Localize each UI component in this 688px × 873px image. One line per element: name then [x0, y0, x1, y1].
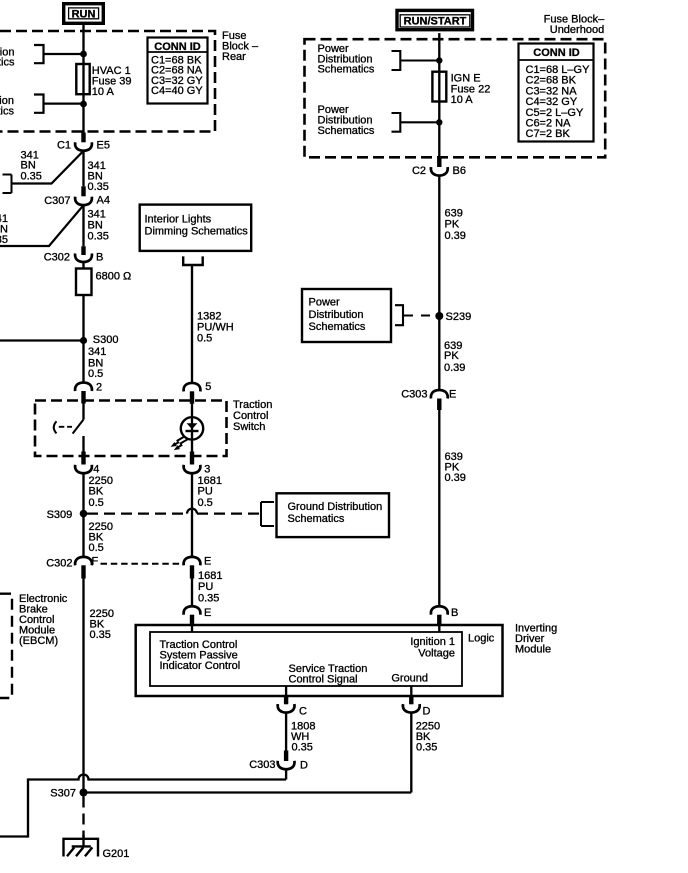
- svg-text:D: D: [300, 760, 308, 772]
- svg-text:0.5: 0.5: [88, 368, 103, 380]
- svg-text:Power: Power: [309, 297, 341, 309]
- svg-text:D: D: [423, 706, 431, 718]
- svg-text:Schematics: Schematics: [288, 513, 345, 525]
- svg-text:0.5: 0.5: [89, 542, 104, 554]
- svg-text:B: B: [96, 252, 103, 264]
- svg-text:Schematics: Schematics: [0, 57, 15, 69]
- svg-text:Rear: Rear: [222, 51, 246, 63]
- svg-text:C307: C307: [44, 195, 70, 207]
- svg-text:E: E: [449, 389, 456, 401]
- svg-text:5: 5: [205, 381, 211, 393]
- svg-text:S309: S309: [47, 509, 73, 521]
- svg-text:S307: S307: [50, 788, 76, 800]
- svg-text:Module: Module: [515, 644, 551, 656]
- svg-text:(EBCM): (EBCM): [19, 635, 58, 647]
- svg-text:CONN ID: CONN ID: [533, 47, 580, 59]
- svg-text:PU: PU: [198, 581, 213, 593]
- svg-text:0.5: 0.5: [197, 333, 212, 345]
- svg-text:C1: C1: [57, 140, 71, 152]
- svg-text:B: B: [451, 607, 458, 619]
- svg-text:PK: PK: [444, 350, 459, 362]
- svg-text:F: F: [92, 556, 99, 568]
- svg-text:BK: BK: [89, 486, 104, 498]
- svg-text:S239: S239: [446, 311, 472, 323]
- svg-text:0.35: 0.35: [198, 592, 219, 604]
- svg-text:3: 3: [204, 464, 210, 476]
- svg-text:0.5: 0.5: [89, 497, 104, 509]
- svg-text:Schematics: Schematics: [0, 106, 14, 118]
- svg-text:Ignition 1: Ignition 1: [410, 636, 455, 648]
- svg-text:Ground: Ground: [391, 673, 428, 685]
- svg-text:0.35: 0.35: [88, 181, 109, 193]
- svg-text:Schematics: Schematics: [318, 125, 375, 137]
- svg-text:C303: C303: [249, 759, 275, 771]
- svg-text:0.35: 0.35: [292, 742, 313, 754]
- svg-text:10 A: 10 A: [92, 86, 115, 98]
- svg-text:6800 Ω: 6800 Ω: [96, 271, 132, 283]
- svg-text:E5: E5: [97, 140, 110, 152]
- svg-text:Schematics: Schematics: [309, 321, 366, 333]
- svg-text:E: E: [204, 607, 211, 619]
- svg-text:Logic: Logic: [468, 633, 495, 645]
- svg-text:C2: C2: [412, 165, 426, 177]
- svg-text:Distribution: Distribution: [309, 309, 364, 321]
- svg-text:B6: B6: [453, 165, 466, 177]
- svg-text:0.39: 0.39: [444, 362, 465, 374]
- svg-text:C: C: [299, 706, 307, 718]
- svg-text:Interior Lights: Interior Lights: [145, 214, 212, 226]
- svg-text:0.35: 0.35: [88, 230, 109, 242]
- svg-text:Control Signal: Control Signal: [289, 673, 358, 685]
- svg-text:Voltage: Voltage: [418, 648, 455, 660]
- svg-text:C7=2 BK: C7=2 BK: [526, 128, 571, 140]
- svg-text:E: E: [204, 556, 211, 568]
- svg-text:Switch: Switch: [233, 421, 265, 433]
- svg-text:PU: PU: [198, 486, 213, 498]
- svg-text:0.5: 0.5: [198, 497, 213, 509]
- svg-text:0.39: 0.39: [445, 230, 466, 242]
- svg-text:Ground Distribution: Ground Distribution: [288, 501, 383, 513]
- svg-text:0.35: 0.35: [90, 629, 111, 641]
- svg-text:RUN: RUN: [72, 8, 96, 20]
- svg-text:Schematics: Schematics: [318, 64, 375, 76]
- svg-text:A4: A4: [97, 195, 110, 207]
- svg-text:10 A: 10 A: [451, 94, 474, 106]
- svg-text:C302: C302: [46, 558, 72, 570]
- svg-text:639: 639: [445, 207, 463, 219]
- svg-text:Indicator Control: Indicator Control: [160, 660, 241, 672]
- svg-text:4: 4: [93, 464, 99, 476]
- svg-text:CONN ID: CONN ID: [154, 41, 201, 53]
- svg-text:G201: G201: [103, 848, 130, 860]
- svg-text:0.35: 0.35: [416, 742, 437, 754]
- svg-text:0.35: 0.35: [0, 234, 8, 246]
- svg-text:PK: PK: [445, 219, 460, 231]
- svg-text:0.39: 0.39: [445, 472, 466, 484]
- svg-text:2: 2: [96, 382, 102, 394]
- svg-text:0.35: 0.35: [21, 171, 42, 183]
- svg-text:C303: C303: [401, 389, 427, 401]
- svg-text:C302: C302: [44, 252, 70, 264]
- svg-text:S300: S300: [93, 334, 119, 346]
- svg-text:Underhood: Underhood: [550, 24, 604, 36]
- svg-text:C4=40 GY: C4=40 GY: [151, 85, 203, 97]
- svg-text:RUN/START: RUN/START: [404, 16, 467, 28]
- svg-text:Dimming Schematics: Dimming Schematics: [145, 226, 249, 238]
